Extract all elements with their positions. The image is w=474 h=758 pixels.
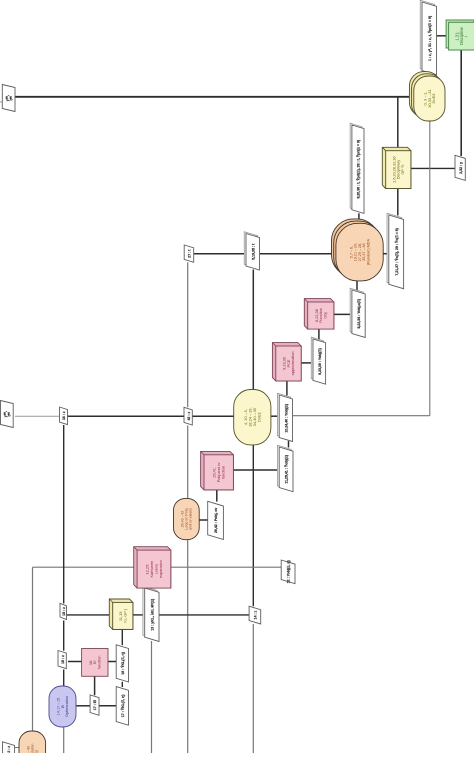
svg-text:KL-GP ĵ: KL-GP ĵ bbox=[122, 608, 127, 623]
svg-text:1 : z, y⁰, 31 : z, t, Ŷpri(Ξ =: 1 : z, y⁰, 31 : z, t, Ŷpri(Ξ = 9) bbox=[427, 16, 432, 61]
svg-text:function: function bbox=[97, 656, 102, 670]
svg-text:17 : EI: 17 : EI bbox=[93, 700, 97, 710]
svg-text:5,19,35 : t: 5,19,35 : t bbox=[251, 243, 255, 260]
svg-text:expansion: expansion bbox=[158, 560, 163, 578]
svg-text:7,21,37 : Ŷc(Ξ), 29 : Ŷc(Ξ = 9: 7,21,37 : Ŷc(Ξ), 29 : Ŷc(Ξ = 9) bbox=[394, 228, 399, 275]
svg-text:2,32 : y: 2,32 : y bbox=[459, 162, 463, 174]
svg-text:12 : Yobj(Ξ, η): 12 : Yobj(Ξ, η) bbox=[287, 560, 291, 583]
svg-text:11,25,41 : Ŷobj(Ξ): 11,25,41 : Ŷobj(Ξ) bbox=[284, 455, 289, 484]
svg-text:14 : z: 14 : z bbox=[254, 610, 258, 619]
svg-text:13 : yKL, λKL θP(Ξ): 13 : yKL, λKL θP(Ξ) bbox=[150, 599, 154, 631]
svg-text:t⁽⁰⁾: t⁽⁰⁾ bbox=[7, 412, 12, 416]
svg-text:17 : ŶKL(Ξ, η): 17 : ŶKL(Ξ, η) bbox=[120, 695, 125, 718]
svg-text:function: function bbox=[221, 466, 225, 479]
svg-text:2 : z: 2 : z bbox=[7, 746, 11, 753]
svg-text:42 : z: 42 : z bbox=[187, 412, 191, 421]
svg-text:18 : z: 18 : z bbox=[62, 411, 66, 420]
svg-text:and cv values: and cv values bbox=[189, 508, 193, 530]
svg-text:26,41:: 26,41: bbox=[213, 467, 217, 478]
svg-text:DoEξ: DoEξ bbox=[256, 412, 261, 422]
svg-text:8,22,38 : Yobj,c(Ξ): 8,22,38 : Yobj,c(Ξ) bbox=[357, 299, 361, 329]
svg-text:(Random) MDA: (Random) MDA bbox=[366, 238, 370, 265]
svg-text:Optimization: Optimization bbox=[65, 696, 69, 717]
svg-text:t⁽⁰⁾: t⁽⁰⁾ bbox=[8, 96, 13, 100]
svg-text:16 : ŶKL(Ξ, η): 16 : ŶKL(Ξ, η) bbox=[120, 652, 125, 675]
svg-text:GP Ŷi: GP Ŷi bbox=[400, 165, 405, 175]
svg-text:10,24,40 : Yobj(Ξ): 10,24,40 : Yobj(Ξ) bbox=[284, 404, 288, 433]
svg-text:26,42 : Pobj, cv: 26,42 : Pobj, cv bbox=[214, 508, 218, 533]
svg-text:Pobj and cv: Pobj and cv bbox=[217, 462, 221, 482]
svg-text:Obj: Obj bbox=[323, 312, 328, 318]
svg-text:DoEδ: DoEδ bbox=[431, 93, 436, 104]
svg-text:9,23,39 : Yobj(Ξ): 9,23,39 : Yobj(Ξ) bbox=[318, 348, 322, 375]
svg-text:27 : t: 27 : t bbox=[188, 249, 192, 258]
svg-text:16 : z: 16 : z bbox=[61, 655, 65, 664]
svg-text:i: i bbox=[464, 36, 469, 37]
svg-text:15 : z: 15 : z bbox=[62, 607, 66, 616]
svg-text:approximation: approximation bbox=[291, 352, 295, 376]
svg-text:6,20,36 : t, Ŷpri(Ξ), 28 : t,: 6,20,36 : t, Ŷpri(Ξ), 28 : t, Ŷpri(Ξ = 9… bbox=[356, 140, 361, 199]
